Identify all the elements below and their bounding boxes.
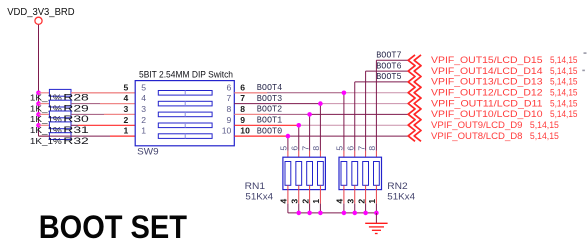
wire vertical BOOT0 to RN1 pin 5 bbox=[287, 136, 289, 151]
wire vertical BOOT5 to RN2 pin 6 bbox=[354, 82, 356, 151]
svg-text:5,14,15: 5,14,15 bbox=[550, 98, 578, 109]
svg-text:2: 2 bbox=[124, 115, 129, 125]
svg-text:5,14,15: 5,14,15 bbox=[530, 131, 559, 142]
wire ground bus bbox=[288, 212, 377, 214]
RN2 bottom pin 3 bbox=[354, 185, 356, 203]
junction VDD rail row 2 bbox=[36, 101, 41, 106]
svg-text:4: 4 bbox=[124, 93, 129, 103]
svg-text:3: 3 bbox=[290, 199, 300, 204]
svg-text:10: 10 bbox=[240, 126, 250, 136]
junction ground bus x=309.6 bbox=[307, 211, 312, 216]
junction VDD rail row 3 bbox=[36, 112, 41, 117]
RN1 element 1 bbox=[285, 162, 291, 186]
svg-text:VPIF_OUT13/LCD_D13: VPIF_OUT13/LCD_D13 bbox=[431, 77, 543, 88]
wire R28 to SW9 pin5 bbox=[71, 92, 135, 94]
RN2 bottom pin 1 bbox=[375, 185, 377, 203]
wire VDD vertical bus bbox=[38, 25, 40, 137]
RN2 bottom pin 4 bbox=[343, 185, 345, 203]
svg-text:6: 6 bbox=[227, 82, 232, 92]
svg-text:5: 5 bbox=[335, 146, 345, 151]
RN2 element 2 bbox=[352, 162, 358, 186]
svg-text:6: 6 bbox=[290, 146, 300, 151]
svg-text:VPIF_OUT10/LCD_D10: VPIF_OUT10/LCD_D10 bbox=[431, 109, 543, 120]
RN2 element 1 bbox=[341, 162, 347, 186]
svg-text:3: 3 bbox=[141, 104, 146, 114]
wire BOOT4 row bbox=[234, 92, 267, 94]
svg-text:5BIT 2.54MM DIP Switch: 5BIT 2.54MM DIP Switch bbox=[139, 70, 233, 81]
RN1 element 2 bbox=[296, 162, 302, 186]
svg-text:RN2: RN2 bbox=[387, 181, 407, 192]
svg-text:BOOT0: BOOT0 bbox=[257, 126, 282, 136]
junction ground bus x=298.75 bbox=[296, 211, 301, 216]
RN1 bottom pin 4 bbox=[287, 185, 289, 203]
junction ground bus x=343.9 bbox=[342, 211, 347, 216]
switch element row 1 bbox=[158, 91, 212, 96]
wire BOOT5 row bbox=[355, 81, 408, 83]
RN2 element 3 bbox=[363, 162, 369, 186]
svg-text:8: 8 bbox=[240, 104, 245, 114]
svg-text:BOOT7: BOOT7 bbox=[376, 51, 401, 61]
resistor R29 bbox=[39, 103, 50, 105]
svg-text:VPIF_OUT14/LCD_D14: VPIF_OUT14/LCD_D14 bbox=[431, 66, 543, 77]
svg-text:5,14,15: 5,14,15 bbox=[550, 109, 578, 120]
svg-text:2: 2 bbox=[300, 199, 310, 204]
wire R32 to SW9 pin1 bbox=[39, 135, 111, 137]
svg-text:9: 9 bbox=[240, 115, 245, 125]
RN1 bottom pin 2 bbox=[309, 185, 311, 203]
RN2 element 4 bbox=[374, 162, 380, 186]
svg-text:5,14,15: 5,14,15 bbox=[550, 55, 578, 66]
junction BOOT2 drop bbox=[307, 112, 312, 117]
svg-text:6: 6 bbox=[240, 82, 245, 92]
stray mark 1 bbox=[584, 52, 587, 54]
junction BOOT4 drop bbox=[342, 91, 347, 96]
ground symbol bbox=[365, 223, 387, 233]
junction BOOT0 drop bbox=[286, 134, 291, 139]
svg-text:BOOT5: BOOT5 bbox=[376, 72, 401, 82]
svg-text:BOOT1: BOOT1 bbox=[257, 116, 282, 126]
svg-text:8: 8 bbox=[311, 146, 321, 151]
switch element row 3 bbox=[158, 112, 212, 117]
RN1 bottom pin 3 bbox=[298, 185, 300, 203]
svg-text:7: 7 bbox=[356, 146, 366, 151]
off-page connector zigzag column 2 (BOOT7..BOOT0) bbox=[414, 55, 421, 141]
svg-text:7: 7 bbox=[300, 146, 310, 151]
svg-text:51Kx4: 51Kx4 bbox=[387, 191, 415, 202]
svg-text:BOOT4: BOOT4 bbox=[257, 83, 282, 93]
junction ground bus x=354.75 bbox=[352, 211, 357, 216]
svg-text:7: 7 bbox=[240, 93, 245, 103]
resistor network RN1 body bbox=[283, 157, 326, 189]
junction BOOT1 drop bbox=[296, 123, 301, 128]
svg-text:8: 8 bbox=[367, 146, 377, 151]
switch element row 5 bbox=[158, 134, 212, 139]
svg-text:1: 1 bbox=[141, 126, 146, 136]
svg-text:3: 3 bbox=[346, 199, 356, 204]
wire BOOT7 row bbox=[376, 59, 408, 61]
wire BOOT1 row bbox=[234, 124, 298, 126]
svg-text:9: 9 bbox=[227, 115, 232, 125]
junction ground bus x=365.6 bbox=[363, 211, 368, 216]
svg-text:RN1: RN1 bbox=[245, 181, 265, 192]
off-page connector zigzag column 1 (BOOT7..BOOT0) bbox=[408, 55, 415, 141]
svg-text:5,14,15: 5,14,15 bbox=[550, 77, 578, 88]
wire vertical BOOT2 to RN1 pin 7 bbox=[309, 114, 311, 150]
switch element row 4 bbox=[158, 123, 212, 128]
svg-text:5: 5 bbox=[279, 146, 289, 151]
svg-text:5: 5 bbox=[141, 82, 146, 92]
junction VDD rail row 1 bbox=[36, 91, 41, 96]
svg-text:51Kx4: 51Kx4 bbox=[245, 191, 273, 202]
wire BOOT2 row bbox=[234, 113, 269, 115]
svg-text:5: 5 bbox=[124, 82, 129, 92]
stray mark 2 bbox=[582, 70, 585, 72]
wire R31 to SW9 pin2 bbox=[71, 124, 78, 126]
resistor network RN2 body bbox=[339, 157, 382, 189]
switch element row 2 bbox=[158, 101, 212, 106]
junction VDD rail row 4 bbox=[36, 123, 41, 128]
wire R29 to SW9 pin4 bbox=[71, 103, 100, 105]
svg-text:5,14,15: 5,14,15 bbox=[550, 88, 578, 99]
resistor R28 bbox=[39, 92, 50, 94]
svg-text:10: 10 bbox=[222, 126, 232, 136]
svg-text:BOOT SET: BOOT SET bbox=[39, 209, 188, 245]
wire R30 to SW9 pin3 bbox=[71, 113, 104, 115]
svg-text:VPIF_OUT15/LCD_D15: VPIF_OUT15/LCD_D15 bbox=[431, 55, 543, 66]
junction ground bus x=320.4 bbox=[318, 211, 323, 216]
svg-text:8: 8 bbox=[227, 104, 232, 114]
wire vertical BOOT4 to RN2 pin 5 bbox=[343, 93, 345, 151]
svg-text:1: 1 bbox=[311, 199, 321, 204]
wire to ground bbox=[375, 213, 377, 223]
svg-text:4: 4 bbox=[279, 199, 289, 204]
svg-text:VPIF_OUT12/LCD_D12: VPIF_OUT12/LCD_D12 bbox=[431, 88, 543, 99]
svg-text:7: 7 bbox=[227, 93, 232, 103]
RN1 element 4 bbox=[318, 162, 324, 186]
wire BOOT3 row bbox=[234, 103, 320, 105]
wire vertical BOOT1 to RN1 pin 6 bbox=[298, 125, 300, 151]
svg-text:6: 6 bbox=[346, 146, 356, 151]
svg-text:5,14,15: 5,14,15 bbox=[550, 66, 578, 77]
svg-text:5,14,15: 5,14,15 bbox=[530, 120, 559, 131]
svg-text:VDD_3V3_BRD: VDD_3V3_BRD bbox=[7, 7, 74, 18]
svg-text:SW9: SW9 bbox=[137, 147, 158, 158]
resistor R32 bbox=[39, 135, 50, 137]
wire BOOT6 row bbox=[366, 70, 409, 72]
svg-text:1: 1 bbox=[124, 126, 129, 136]
junction ground bus x=376.4 bbox=[374, 211, 379, 216]
resistor R30 bbox=[39, 113, 50, 115]
svg-text:BOOT2: BOOT2 bbox=[257, 105, 282, 115]
svg-text:2: 2 bbox=[141, 115, 146, 125]
svg-text:VPIF_OUT8/LCD_D8: VPIF_OUT8/LCD_D8 bbox=[431, 131, 523, 142]
power symbol VDD_3V3_BRD circle bbox=[35, 17, 42, 24]
wire vertical BOOT3 to RN1 pin 8 bbox=[319, 104, 321, 151]
wire BOOT0 row bbox=[234, 135, 288, 137]
dip switch SW9 body bbox=[135, 81, 234, 146]
RN1 bottom pin 1 bbox=[319, 185, 321, 203]
svg-text:3: 3 bbox=[124, 104, 129, 114]
svg-text:2: 2 bbox=[356, 199, 366, 204]
wire vertical BOOT6 to RN2 pin 7 bbox=[365, 71, 367, 151]
svg-text:1: 1 bbox=[367, 199, 377, 204]
RN1 element 3 bbox=[307, 162, 313, 186]
junction BOOT3 drop bbox=[318, 101, 323, 106]
svg-text:4: 4 bbox=[335, 199, 345, 204]
svg-text:VPIF_OUT11/LCD_D11: VPIF_OUT11/LCD_D11 bbox=[431, 98, 543, 109]
svg-text:VPIF_OUT9/LCD_D9: VPIF_OUT9/LCD_D9 bbox=[431, 120, 523, 131]
resistor R31 bbox=[39, 124, 50, 126]
svg-text:BOOT3: BOOT3 bbox=[257, 94, 282, 104]
wire vertical BOOT7 to RN2 pin 8 bbox=[375, 60, 377, 151]
svg-text:1K_1%: 1K_1% bbox=[30, 136, 63, 146]
svg-text:4: 4 bbox=[141, 93, 146, 103]
RN2 bottom pin 2 bbox=[365, 185, 367, 203]
svg-text:BOOT6: BOOT6 bbox=[376, 61, 401, 71]
